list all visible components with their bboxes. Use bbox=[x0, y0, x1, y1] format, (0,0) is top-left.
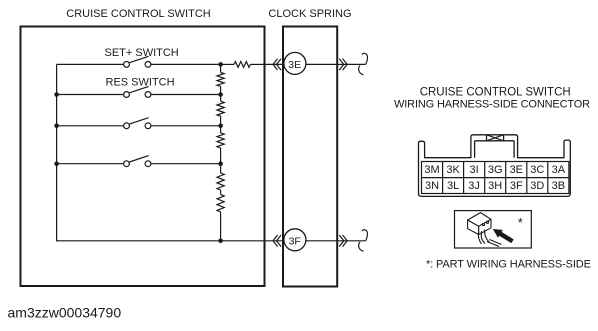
svg-text:CRUISE CONTROL SWITCH: CRUISE CONTROL SWITCH bbox=[420, 87, 571, 99]
svg-text:am3zzw00034790: am3zzw00034790 bbox=[8, 305, 122, 321]
svg-text:3D: 3D bbox=[530, 180, 544, 192]
svg-text:WIRING HARNESS-SIDE CONNECTOR: WIRING HARNESS-SIDE CONNECTOR bbox=[394, 99, 590, 111]
svg-text:3H: 3H bbox=[488, 180, 502, 192]
svg-text:3E: 3E bbox=[510, 164, 523, 176]
svg-text:3E: 3E bbox=[288, 59, 301, 71]
svg-text:3N: 3N bbox=[425, 180, 439, 192]
svg-text:*: PART WIRING HARNESS-SIDE: *: PART WIRING HARNESS-SIDE bbox=[426, 259, 591, 271]
svg-text:3K: 3K bbox=[446, 164, 460, 176]
svg-text:RES SWITCH: RES SWITCH bbox=[106, 76, 175, 88]
svg-text:3I: 3I bbox=[470, 164, 479, 176]
svg-text:3A: 3A bbox=[552, 164, 566, 176]
svg-text:3F: 3F bbox=[289, 236, 301, 248]
svg-text:CRUISE CONTROL SWITCH: CRUISE CONTROL SWITCH bbox=[66, 8, 210, 20]
svg-text:3F: 3F bbox=[510, 180, 523, 192]
svg-text:3B: 3B bbox=[552, 180, 565, 192]
svg-text:SET+ SWITCH: SET+ SWITCH bbox=[105, 47, 179, 59]
svg-text:3J: 3J bbox=[468, 180, 480, 192]
svg-text:3M: 3M bbox=[424, 164, 439, 176]
svg-text:3C: 3C bbox=[530, 164, 544, 176]
svg-text:3L: 3L bbox=[447, 180, 459, 192]
svg-text:CLOCK SPRING: CLOCK SPRING bbox=[268, 8, 351, 20]
svg-text:*: * bbox=[518, 215, 523, 230]
svg-text:3G: 3G bbox=[488, 164, 503, 176]
